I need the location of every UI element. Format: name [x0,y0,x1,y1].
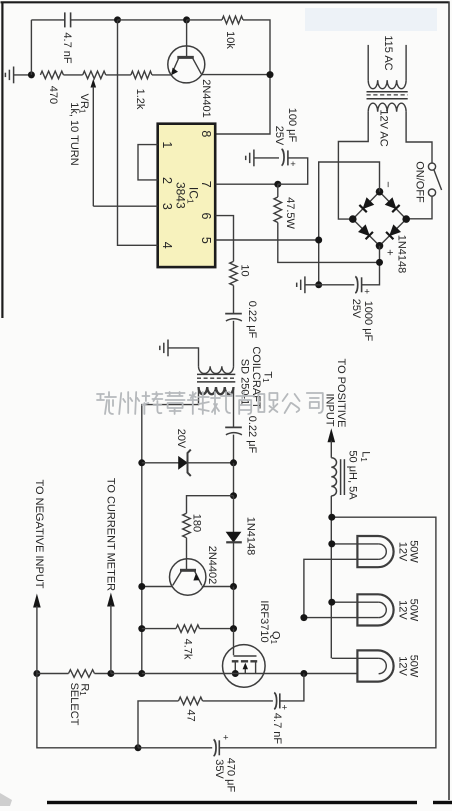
wire T1 primary left to ground [168,348,199,366]
svg-text:20V: 20V [175,429,187,449]
wire zener left [142,462,179,464]
capacitor 1000uF 25V [319,284,355,286]
svg-text:25V: 25V [350,299,362,319]
svg-text:1N4148: 1N4148 [244,517,256,556]
svg-text:IRF3710: IRF3710 [258,600,270,642]
transformer T1 core [197,373,235,375]
wire ground to rail [305,284,319,286]
op-amp IC1 3843 box [158,124,216,267]
wire 470 to VR1 [63,74,82,76]
wire bottom rail to 470uF [138,747,212,749]
svg-text:47: 47 [184,709,196,721]
wire 470uF to right side [219,517,436,748]
svg-text:4: 4 [160,242,174,249]
node bridge left [349,215,357,223]
page border right [448,2,450,801]
wire secondary right lead to switch [406,112,432,163]
node bridge minus [376,188,384,196]
svg-text:2N4401: 2N4401 [200,79,212,118]
transformer T1 secondary winding [199,387,234,394]
svg-text:12V: 12V [397,542,409,562]
faint scan tint top-right [305,8,437,31]
wire right rail to 180 node [233,463,235,496]
svg-text:6: 6 [199,213,213,220]
transistor 2N4402 [170,559,206,595]
svg-text:35V: 35V [213,759,225,779]
wire R1 to current meter node [95,673,111,675]
svg-text:12V AC: 12V AC [377,109,389,146]
node lamp1 top feed [328,540,335,547]
svg-text:8: 8 [199,130,213,137]
wire T1 secondary left to left rail [142,387,199,673]
svg-text:SD 250-1: SD 250-1 [239,359,251,405]
wire bridge arm top-right [380,192,407,219]
wire 0.22uF to right rail [233,435,235,463]
svg-text:+: + [384,249,396,255]
transistor Q1 IRF3710 MOSFET [223,645,266,688]
svg-text:TO NEGATIVE INPUT: TO NEGATIVE INPUT [33,480,45,589]
svg-text:5: 5 [199,237,213,244]
switch ON/OFF [428,163,435,170]
capacitor 470uF 35V [214,739,216,756]
resistor 470 [40,71,63,79]
capacitor 0.22uF (pin6) [225,313,242,315]
wire pin 7 to junction [216,183,278,185]
wire switch to bridge right node [406,196,432,219]
ground G3 (main filter) [304,276,306,293]
wire VR1 to 1.2k [106,74,131,76]
svg-text:0.22 μF: 0.22 μF [246,301,258,339]
wire 0.22uF to T1 primary [233,321,235,367]
svg-text:180: 180 [191,514,203,532]
svg-text:100 μF: 100 μF [286,108,298,143]
node VCC junction [267,71,274,78]
node + below bridge [376,259,383,266]
transformer T mains primary leads [367,45,369,80]
wire to left rail node [111,673,142,675]
resistor 47.5W [277,184,279,197]
wire 180 to 2N4402 base [186,538,188,569]
snubber: wire up from bottom rail [138,701,179,748]
capacitor 100uF 25V [282,149,284,166]
wire bridge minus to ground rail [319,162,380,285]
wire right rail to 4.7k [233,587,235,629]
svg-text:4.7k: 4.7k [181,639,193,660]
node current meter tap [107,670,114,677]
page border left [1,2,3,319]
wire node A up to top rail [30,20,32,75]
potentiometer VR1 [83,71,106,79]
node snubber bottom [135,744,142,751]
wire 4.7k right [200,628,234,630]
diode D2 (bridge top-right) [385,198,399,212]
diode D1 (bridge top-left, 1N4148) [359,198,373,212]
arrow to positive input [328,428,336,442]
arrow to negative input [33,594,41,608]
svg-text:115 AC: 115 AC [382,35,394,70]
diode D4 (bridge bottom-right) [386,225,400,239]
svg-text:25V: 25V [273,126,285,146]
resistor 4.7k [176,625,200,633]
svg-text:470 μF: 470 μF [224,758,236,793]
svg-text:12V: 12V [397,600,409,620]
svg-text:12V: 12V [397,656,409,676]
wire 2N4402 right to rail [202,586,234,588]
capacitor 0.22uF (snubber) [225,426,242,428]
node lamp2 bottom [300,614,307,621]
node left rail 4.7k [138,625,145,632]
wire 2N4402 left to rail [142,586,173,588]
diode D3 (bridge bottom-left) [359,225,373,239]
node 180 branch [230,492,237,499]
capacitor 4.7nF (snubber) [274,693,276,710]
ground G4 (T1) [167,340,169,357]
node left rail 2N4402 [138,583,145,590]
bottom-left scan smudge [0,793,12,806]
node MOSFET source [232,670,239,677]
wire VR1 wiper down to pin 3 [92,87,94,207]
wire MOSFET to lamp rail [304,673,358,675]
svg-text:−: − [381,181,393,187]
resistor 10 [230,261,238,285]
lamp LP1 50W 12V [357,536,393,567]
wire 47 to 4.7nF [203,700,273,702]
node lamp bottom rail [300,670,307,677]
node left rail zener [138,459,145,466]
wire top rail left segment [31,19,64,21]
svg-text:+: + [290,159,296,170]
svg-text:0.22 μF: 0.22 μF [246,416,258,454]
wire 47.5W to + rail [278,223,380,263]
wire 4.7nF to drain node [280,674,304,701]
svg-text:3: 3 [160,203,174,210]
wire secondary left lead to bridge [338,112,368,219]
lamp LP2 50W 12V [357,594,393,625]
wire lamp1 bottom to rail B [304,559,379,617]
svg-text:1N4148: 1N4148 [396,235,408,274]
resistor 1.2k [131,71,152,79]
transformer T1 primary winding [199,366,234,373]
transformer T primary winding [368,80,406,89]
transformer T secondary winding [368,103,406,112]
wire bridge arm top-left [353,192,380,219]
svg-text:10k: 10k [224,31,236,49]
wire 10k to VCC corner [216,20,270,134]
svg-text:47.5W: 47.5W [284,197,296,229]
page border top [1,1,450,3]
node ground rail pin5 [315,237,322,244]
watermark CJK text (vector strokes) [97,392,116,414]
svg-text:10: 10 [238,264,250,276]
node right rail 4.7k [230,625,237,632]
node ground rail bottom [315,281,322,288]
resistor 47 [179,697,203,705]
resistor 10k [222,16,243,24]
node C junction [183,16,190,23]
node lamp top rail feed [328,514,335,521]
node lamp2 top feed [328,599,335,606]
inductor L1 [330,441,332,458]
wire zener right [188,462,234,464]
svg-text:2N4402: 2N4402 [206,546,218,585]
svg-text:+: + [364,287,370,298]
zener diode 20V [179,457,187,469]
svg-text:TO CURRENT METER: TO CURRENT METER [105,478,117,591]
wire top rail mid segment [71,19,118,21]
svg-text:50 μH, 5A: 50 μH, 5A [347,450,359,500]
svg-text:1.2k: 1.2k [134,89,146,110]
wire T1 secondary right to 0.22uF [233,387,235,427]
wire 1000uF to + node [362,246,380,285]
svg-text:+: + [223,733,229,744]
wire bridge arm bottom-left [353,219,380,246]
wire collector to VCC node [201,74,270,76]
bottom scan bar [47,801,417,804]
wire V- down to bottom rail [37,674,138,748]
capacitor 4.7nF (top) [64,12,66,27]
svg-text:SELECT: SELECT [68,683,80,726]
wire pin 6 to 10R [216,216,234,262]
svg-text:1000 μF: 1000 μF [362,301,374,342]
transistor 2N4401 [168,46,205,83]
wire ground to node [14,74,32,76]
wire 10R to 0.22uF [233,285,235,313]
svg-text:1: 1 [160,141,174,148]
resistor R1 SELECT [69,670,95,678]
svg-text:INPUT: INPUT [324,394,336,427]
diode 1N4148 (rail) [233,496,235,533]
svg-text:+: + [282,703,288,714]
wire L1 to lamp rail [330,496,332,658]
wire top rail to 10k [187,19,222,21]
wire pin 5 to ground rail [216,239,319,241]
wire to 180 [187,496,234,514]
wire pin 3 from VR1 wiper [93,205,157,207]
resistor 180 [183,513,191,538]
svg-text:1k, 10 TURN: 1k, 10 TURN [68,102,80,165]
wire ground to 100uF [254,157,279,159]
ground G1 (input) [13,67,15,84]
wire 100uF to pin7 node [278,158,308,184]
wire lamp2 bottom to rail B [304,617,379,619]
wire V- to R1 [37,673,69,675]
svg-text:4.7 nF: 4.7 nF [271,713,283,744]
wire pin 4 from node B [118,20,158,245]
svg-text:470: 470 [47,86,59,104]
VR1 wiper arrow [91,79,97,88]
ground G2 (100uF) [253,150,255,167]
wire 4.7k left [142,628,176,630]
node B junction [114,16,121,23]
wire pin1-pin2 jumper [138,145,158,180]
node V- corner [33,670,40,677]
node bridge right [402,215,410,223]
wire 1.2k to Q2N4401 emitter [152,74,171,76]
wire bridge arm bottom-right [380,219,407,246]
wire left rail to MOSFET [142,673,304,675]
node left rail bottom [138,670,145,677]
svg-text:4.7 nF: 4.7 nF [61,32,73,63]
node A junction [28,71,35,78]
wire top rail to node C [118,19,187,21]
arrow to current meter [107,593,115,607]
svg-text:2: 2 [160,177,174,184]
node right rail top [230,459,237,466]
svg-text:3843: 3843 [174,182,188,209]
svg-text:TO POSITIVE: TO POSITIVE [335,359,347,428]
transformer T core [367,91,408,93]
node bridge plus [376,242,384,250]
node pin7 junction [274,181,281,188]
svg-text:ON/OFF: ON/OFF [414,161,426,203]
lamp LP3 50W 12V [357,650,393,681]
node right rail 2N4402 [230,583,237,590]
